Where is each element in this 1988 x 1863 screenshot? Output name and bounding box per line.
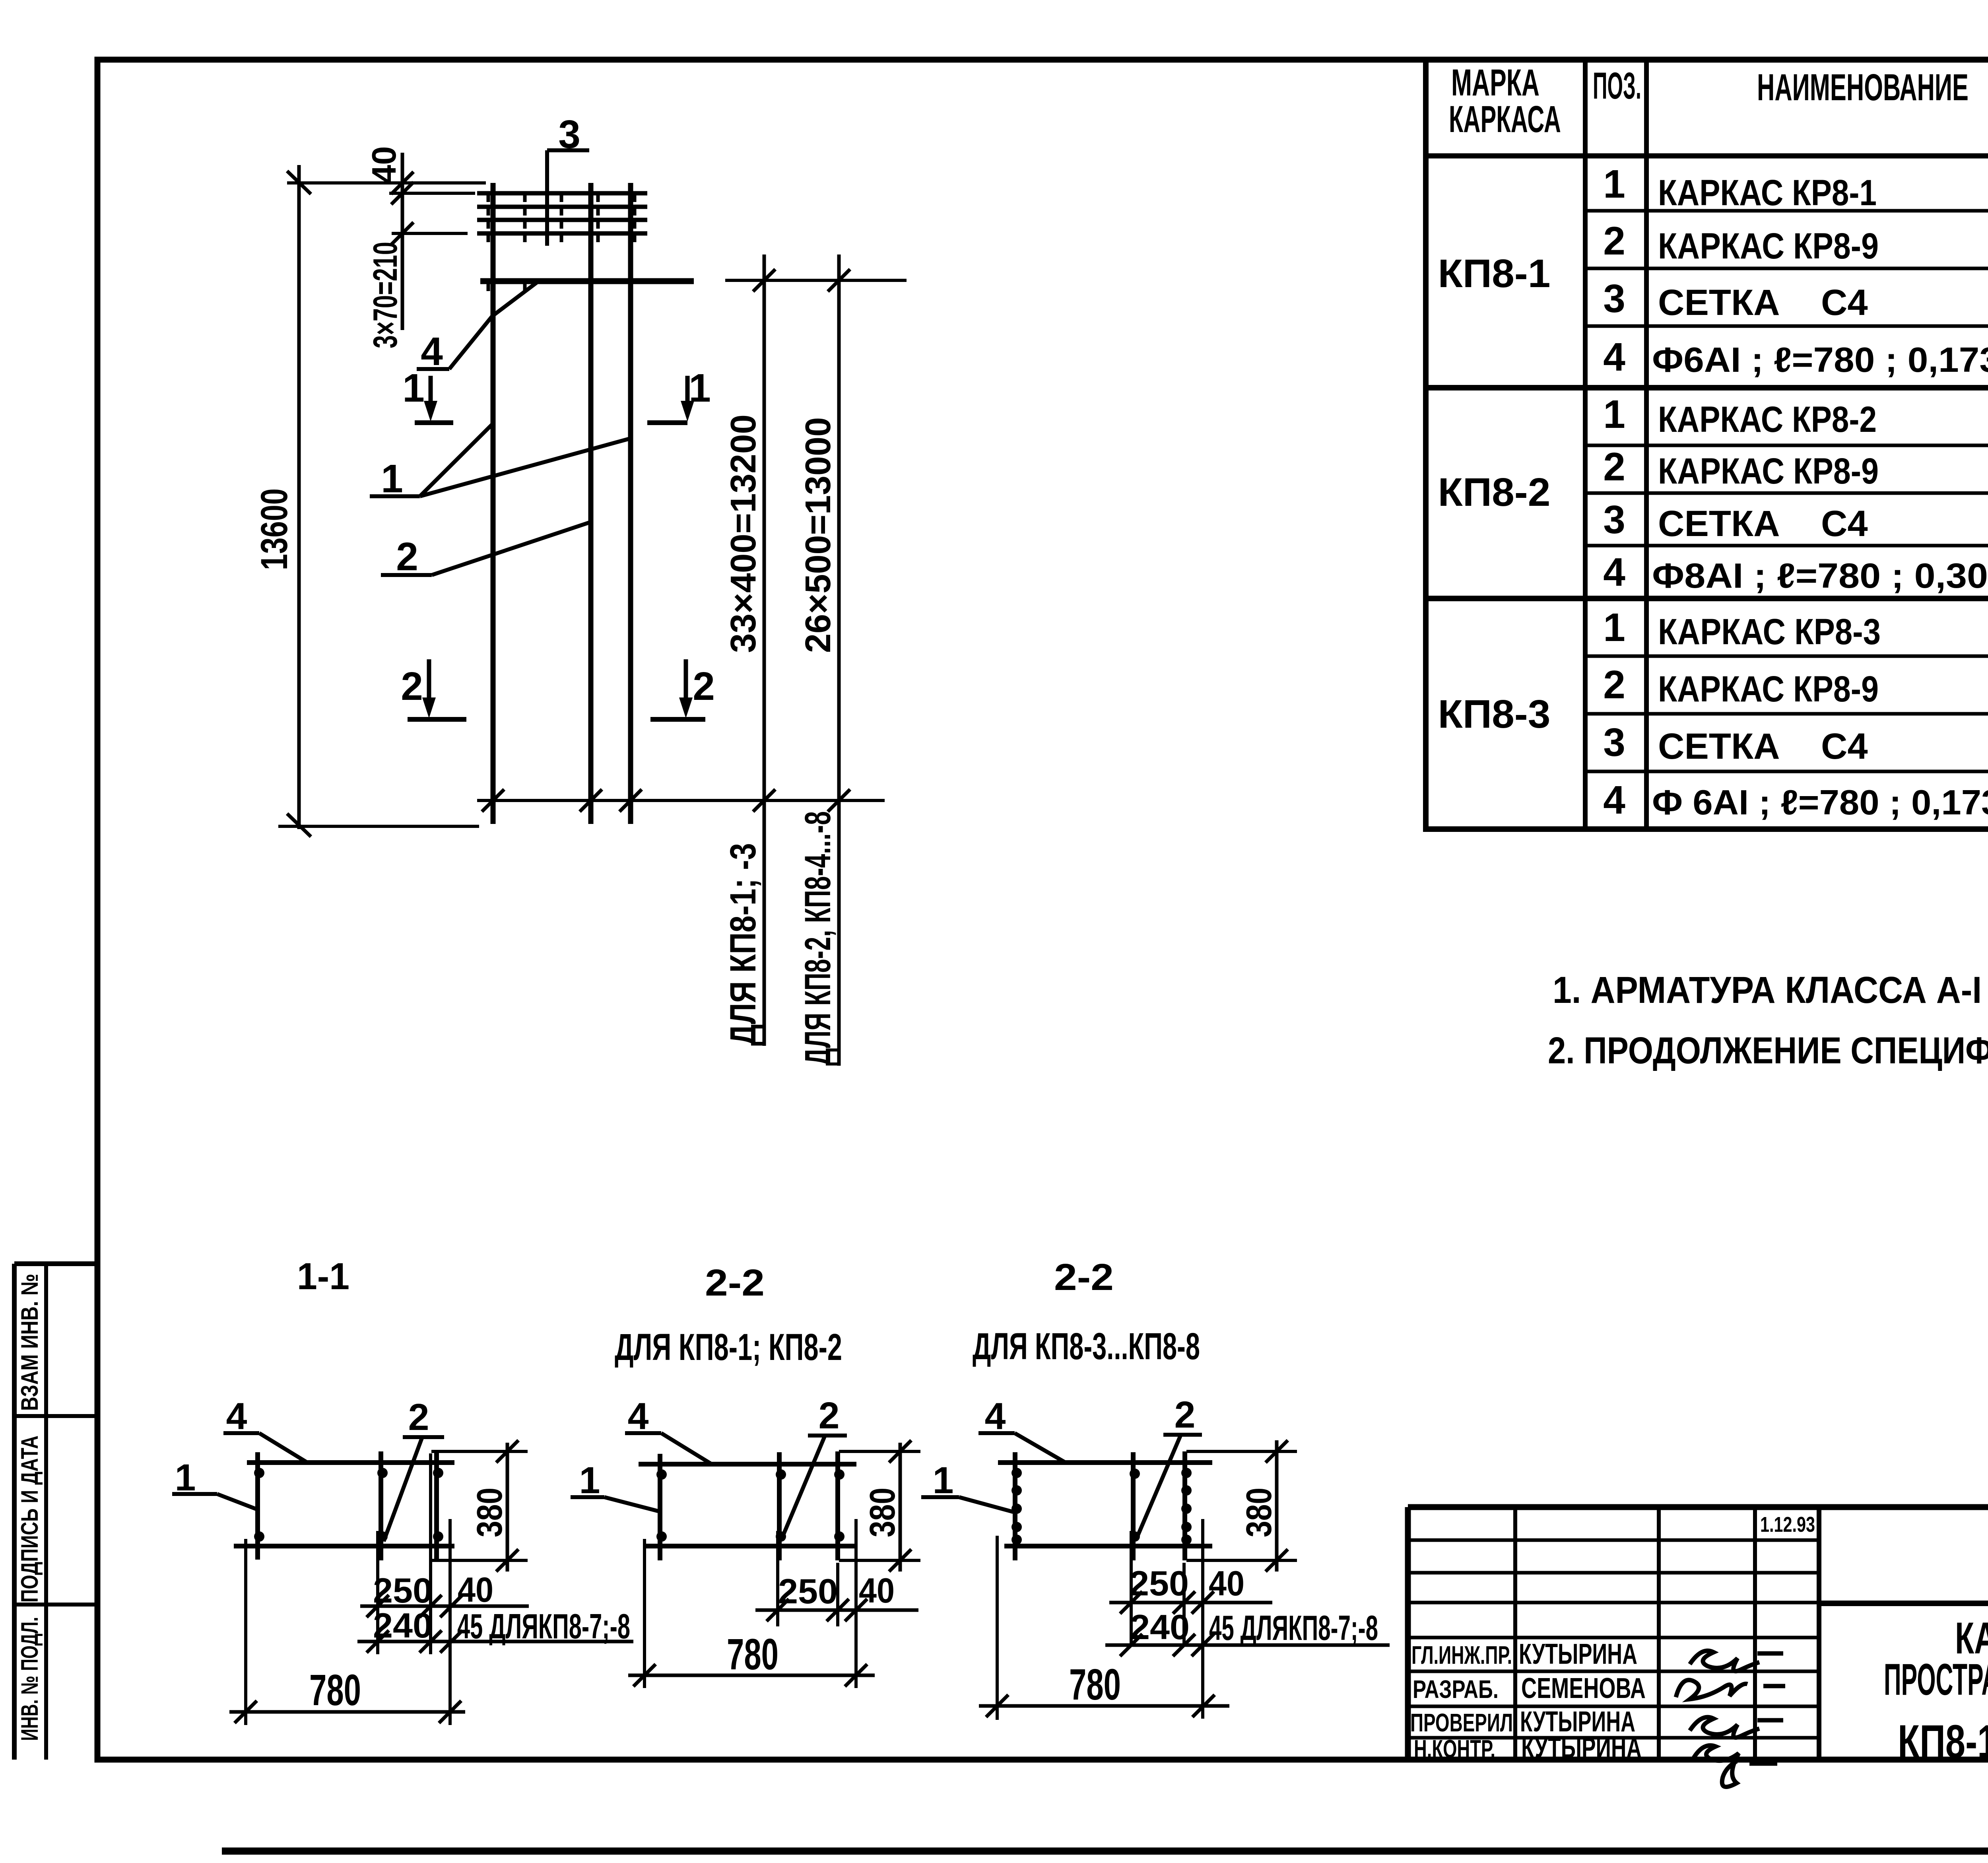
svg-text:2: 2 — [693, 664, 715, 709]
svg-text:ПРОСТРАНСТВЕННЫЙ: ПРОСТРАНСТВЕННЫЙ — [1884, 1655, 1988, 1704]
svg-text:НАИМЕНОВАНИЕ: НАИМЕНОВАНИЕ — [1757, 66, 1969, 109]
leader 1 (vertical bars) — [370, 423, 630, 501]
section 2-2b dim 380 — [1186, 1440, 1297, 1572]
svg-text:2: 2 — [819, 1395, 840, 1437]
extension line under 40 — [389, 192, 475, 195]
section 1-1 right bar — [434, 1451, 439, 1560]
extension line under 210 — [392, 232, 468, 235]
signature squiggle 1 — [1690, 1651, 1783, 1671]
signature squiggle 4 — [1694, 1745, 1777, 1787]
svg-text:780: 780 — [309, 1666, 361, 1715]
section 1-1 leader 2 — [384, 1396, 444, 1541]
section 2-2a top wire — [639, 1462, 856, 1467]
section 2-2a weld dots — [656, 1469, 845, 1542]
cage vertical bar right — [628, 183, 633, 824]
section 2-2b weld dots — [1011, 1468, 1192, 1545]
svg-text:КУТЫРИНА: КУТЫРИНА — [1519, 1638, 1637, 1670]
section 2-2b top wire — [998, 1460, 1212, 1465]
section mark 1 upper right — [647, 366, 711, 423]
svg-text:КАРКАС КР8-9: КАРКАС КР8-9 — [1658, 451, 1879, 491]
svg-text:4: 4 — [1603, 778, 1625, 822]
svg-text:ДЛЯ КП8-1; КП8-2: ДЛЯ КП8-1; КП8-2 — [615, 1326, 842, 1368]
thin row lines group 1 — [1585, 211, 1988, 326]
svg-text:ГЛ.ИНЖ.ПР.: ГЛ.ИНЖ.ПР. — [1411, 1641, 1512, 1669]
svg-text:2: 2 — [1175, 1394, 1196, 1436]
svg-text:СЕТКА: СЕТКА — [1658, 503, 1780, 544]
mesh wire 2 with weld hooks — [477, 207, 647, 216]
section mark 2 lower left — [401, 659, 466, 719]
svg-text:45 ДЛЯКП8-7;-8: 45 ДЛЯКП8-7;-8 — [457, 1607, 630, 1646]
svg-text:780: 780 — [1069, 1660, 1121, 1709]
svg-text:КАРКАС КР8-2: КАРКАС КР8-2 — [1658, 399, 1877, 440]
svg-text:Ф 6АI ; ℓ=780 ; 0,173 КГ: Ф 6АI ; ℓ=780 ; 0,173 КГ — [1652, 783, 1988, 822]
svg-text:40: 40 — [458, 1570, 493, 1609]
svg-text:2: 2 — [408, 1396, 429, 1438]
dimension line 26x500=13000 — [828, 254, 850, 1066]
svg-text:250: 250 — [373, 1571, 433, 1610]
svg-text:2. ПРОДОЛЖЕНИЕ СПЕЦИФИКАЦИИ: 2. ПРОДОЛЖЕНИЕ СПЕЦИФИКАЦИИ СМ. Л. 2. — [1548, 1030, 1988, 1072]
svg-text:3: 3 — [1603, 497, 1625, 542]
section mark 2 lower right — [650, 659, 715, 719]
svg-text:380: 380 — [1239, 1488, 1279, 1537]
section 2-2a leader 2 — [781, 1395, 847, 1540]
svg-text:Н.КОНТР.: Н.КОНТР. — [1414, 1735, 1495, 1763]
section 1-1 dim row 240/45 — [357, 1630, 633, 1653]
svg-text:КАРКАС КР8-9: КАРКАС КР8-9 — [1658, 226, 1879, 266]
svg-text:240: 240 — [373, 1606, 433, 1645]
section 1-1 middle bar — [379, 1451, 383, 1560]
group separator line 1 — [1426, 385, 1988, 390]
section 2-2b bottom wire — [1004, 1544, 1212, 1548]
bottom extension line — [278, 825, 479, 828]
svg-text:780: 780 — [727, 1630, 779, 1679]
svg-text:СЕТКА: СЕТКА — [1658, 726, 1780, 767]
dimension line 13600 vertical — [287, 165, 311, 837]
svg-text:КП8-1: КП8-1 — [1438, 251, 1551, 296]
mesh wire 3 with weld hooks — [477, 220, 647, 229]
svg-text:ИНВ. № ПОДЛ.: ИНВ. № ПОДЛ. — [16, 1617, 43, 1741]
svg-text:2-2: 2-2 — [1054, 1256, 1114, 1298]
svg-text:ДЛЯ КП8-2, КП8-4...-8: ДЛЯ КП8-2, КП8-4...-8 — [798, 811, 838, 1066]
section 1-1 leader 1 — [172, 1457, 258, 1510]
dimension line 33x400=13200 — [753, 254, 775, 1046]
section 2-2a dim 780 — [628, 1539, 875, 1688]
svg-text:СЕМЕНОВА: СЕМЕНОВА — [1521, 1673, 1646, 1704]
svg-text:240: 240 — [1130, 1607, 1190, 1647]
section 2-2a leader 1 — [571, 1459, 658, 1511]
heavy transverse bar line — [480, 281, 694, 291]
svg-text:ПОЗ.: ПОЗ. — [1593, 65, 1641, 107]
right extension line at top of 13200/13000 — [725, 279, 907, 282]
group 1 rows — [1603, 162, 1988, 213]
section 2-2b left bar — [1013, 1452, 1017, 1560]
svg-text:КАРКАСА: КАРКАСА — [1449, 98, 1561, 140]
svg-text:380: 380 — [863, 1488, 903, 1537]
section 2-2a left bar — [658, 1454, 662, 1560]
section 2-2a middle bar — [777, 1452, 782, 1560]
svg-text:КП8-1 ... КП8-8: КП8-1 ... КП8-8 — [1898, 1715, 1988, 1768]
svg-text:33×400=13200: 33×400=13200 — [724, 414, 763, 653]
svg-text:Ф8АI ; ℓ=780 ; 0,308КГ: Ф8АI ; ℓ=780 ; 0,308КГ — [1652, 556, 1988, 595]
svg-text:РАЗРАБ.: РАЗРАБ. — [1413, 1675, 1499, 1704]
svg-text:3×70=210: 3×70=210 — [367, 242, 404, 348]
svg-text:КП8-3: КП8-3 — [1438, 692, 1551, 736]
table column line: Поз/Наименование — [1644, 60, 1649, 829]
svg-text:1: 1 — [402, 366, 425, 410]
svg-text:40: 40 — [859, 1571, 895, 1610]
cage vertical bar middle — [588, 183, 594, 824]
line under designation cell — [1819, 1601, 1988, 1606]
svg-text:1. АРМАТУРА КЛАССА А-I П: 1. АРМАТУРА КЛАССА А-I ПО ГОСТ 5781-82. — [1553, 969, 1988, 1011]
table outer box — [1426, 60, 1988, 829]
svg-text:КАРКАС КР8-1: КАРКАС КР8-1 — [1658, 173, 1877, 213]
section 2-2b dim row 250/40 — [1109, 1519, 1272, 1719]
group 3 rows — [1603, 605, 1988, 652]
svg-text:1.12.93: 1.12.93 — [1760, 1513, 1815, 1537]
section 2-2a leader 4 — [625, 1395, 712, 1464]
bottom extension line of 13200/13000 — [477, 799, 885, 802]
signature squiggle 3 — [1690, 1717, 1783, 1737]
section 2-2a dim 380 — [839, 1440, 920, 1572]
svg-text:Ф6АI ; ℓ=780 ; 0,173 КГ: Ф6АI ; ℓ=780 ; 0,173 КГ — [1652, 340, 1988, 379]
cage vertical bar left — [491, 183, 496, 824]
leader 2 (middle bar) — [381, 522, 592, 579]
svg-text:КП8-2: КП8-2 — [1438, 470, 1551, 515]
svg-text:45 ДЛЯКП8-7;-8: 45 ДЛЯКП8-7;-8 — [1209, 1608, 1378, 1647]
svg-text:КАРКАС КР8-3: КАРКАС КР8-3 — [1658, 612, 1881, 652]
ticks on bottom extension at bars — [482, 789, 642, 812]
svg-text:КАРКАС КР8-9: КАРКАС КР8-9 — [1658, 669, 1879, 709]
section 2-2b dim 780 — [979, 1536, 1229, 1720]
mesh wire 1 with weld hooks — [477, 193, 647, 202]
mesh wire 4 with weld hooks — [477, 233, 647, 242]
top extension line — [287, 181, 486, 185]
section 1-1 dim row 250/40 — [360, 1453, 529, 1654]
section 2-2a right bar — [835, 1451, 840, 1560]
section 1-1 dim 780 — [229, 1519, 465, 1725]
section 2-2a bottom wire — [646, 1544, 856, 1548]
svg-text:2-2: 2-2 — [705, 1262, 765, 1304]
svg-text:1: 1 — [1603, 392, 1625, 437]
section 1-1 leader 4 — [223, 1395, 307, 1463]
title block left border — [1405, 1507, 1411, 1760]
svg-text:4: 4 — [1603, 335, 1625, 379]
thin row lines group 3 — [1585, 656, 1988, 771]
svg-text:1: 1 — [1603, 605, 1625, 650]
svg-text:С4: С4 — [1821, 726, 1868, 767]
svg-text:250: 250 — [1129, 1564, 1189, 1603]
leader 4 (transverse bar) — [417, 282, 538, 374]
section 1-1 left bar — [255, 1452, 260, 1560]
svg-text:13600: 13600 — [253, 488, 295, 570]
svg-text:4: 4 — [1603, 550, 1625, 594]
leader 3 (mesh position) — [547, 112, 589, 246]
svg-text:40: 40 — [1209, 1564, 1244, 1603]
section 1-1 dim 380 — [431, 1440, 528, 1572]
group separator line 2 — [1426, 596, 1988, 601]
title block top line — [1408, 1504, 1988, 1510]
group 2 rows — [1603, 392, 1988, 440]
svg-text:ПОДПИСЬ И ДАТА: ПОДПИСЬ И ДАТА — [16, 1436, 43, 1603]
svg-text:1-1: 1-1 — [297, 1255, 349, 1298]
signature squiggle 2 — [1676, 1680, 1785, 1699]
svg-text:СЕТКА: СЕТКА — [1658, 282, 1780, 323]
section 1-1 top wire — [247, 1460, 454, 1465]
svg-text:ПРОВЕРИЛ: ПРОВЕРИЛ — [1410, 1708, 1513, 1737]
section 2-2b leader 2 — [1136, 1394, 1202, 1539]
svg-text:МАРКА: МАРКА — [1451, 62, 1540, 104]
section 1-1 bottom wire — [234, 1544, 454, 1548]
section 2-2b leader 1 — [921, 1459, 1013, 1512]
section 2-2b dim row 240/45 — [1105, 1634, 1390, 1656]
svg-text:КУТЫРИНА: КУТЫРИНА — [1521, 1732, 1642, 1764]
svg-text:26×500=13000: 26×500=13000 — [798, 417, 838, 653]
section 2-2b right bar — [1182, 1451, 1187, 1560]
svg-text:3: 3 — [1603, 276, 1625, 321]
section 2-2a dim row 250/40 — [755, 1519, 918, 1688]
svg-text:2: 2 — [401, 664, 423, 709]
svg-text:ДЛЯ КП8-1; -3: ДЛЯ КП8-1; -3 — [723, 843, 763, 1046]
section 1-1 weld dots — [254, 1468, 443, 1542]
svg-text:ДЛЯ КП8-3...КП8-8: ДЛЯ КП8-3...КП8-8 — [973, 1325, 1200, 1368]
thin row lines group 2 — [1585, 445, 1988, 546]
svg-text:2: 2 — [1603, 445, 1625, 489]
table header texts — [1449, 62, 1988, 159]
left margin stamp boxes — [14, 1264, 97, 1760]
svg-text:3: 3 — [1603, 720, 1625, 765]
section mark 1 upper left — [402, 366, 453, 423]
svg-text:380: 380 — [470, 1488, 510, 1537]
svg-text:ВЗАМ ИНВ. №: ВЗАМ ИНВ. № — [16, 1274, 43, 1411]
section 2-2b middle bar — [1131, 1452, 1136, 1560]
svg-text:С4: С4 — [1821, 503, 1868, 544]
svg-text:С4: С4 — [1821, 282, 1868, 323]
signature grid verticals — [1515, 1507, 1819, 1760]
svg-text:40: 40 — [365, 146, 403, 184]
svg-text:2: 2 — [1603, 219, 1625, 263]
section 2-2b leader 4 — [978, 1395, 1066, 1463]
table header bottom line — [1426, 153, 1988, 159]
svg-text:2: 2 — [1603, 662, 1625, 707]
small dimension line for 40 and 210 — [391, 153, 414, 330]
bottom sheet edge thick line — [222, 1847, 1988, 1855]
signature grid horizontals — [1408, 1540, 1819, 1738]
svg-text:1: 1 — [1603, 162, 1625, 206]
table column line: Марка/Поз — [1583, 60, 1588, 829]
svg-text:2: 2 — [396, 534, 418, 579]
svg-text:250: 250 — [778, 1572, 838, 1611]
